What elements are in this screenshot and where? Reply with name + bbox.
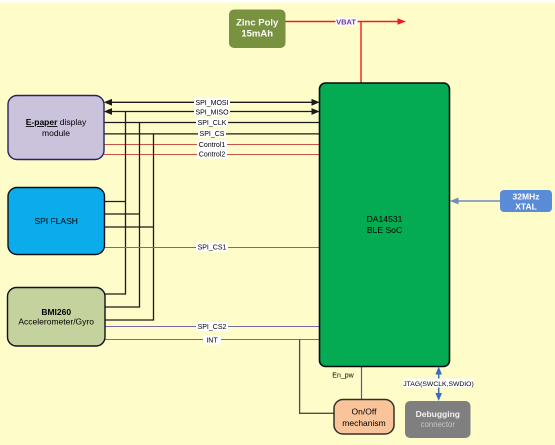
label SPI_CS1 xyxy=(196,243,228,252)
svg-text:Control1: Control1 xyxy=(199,142,226,149)
label SPI_MISO xyxy=(194,107,230,116)
wire SPI_CS xyxy=(104,133,320,135)
svg-text:32MHz: 32MHz xyxy=(513,192,540,202)
svg-text:Debugging: Debugging xyxy=(416,409,460,419)
label En_pw xyxy=(332,373,354,380)
svg-text:module: module xyxy=(42,128,70,138)
svg-text:VBAT: VBAT xyxy=(336,17,356,26)
svg-text:DA14531: DA14531 xyxy=(367,214,403,224)
wire SPI_CS1 (purple) xyxy=(105,247,320,249)
wire VBAT (red, arrow to the right) xyxy=(286,18,407,83)
svg-text:En_pw: En_pw xyxy=(332,373,354,380)
wire SPI_CLK xyxy=(104,122,320,124)
block BMI260 Accelerometer/Gyro xyxy=(8,288,106,347)
svg-text:SPI_MISO: SPI_MISO xyxy=(195,109,229,116)
svg-text:connector: connector xyxy=(421,420,456,429)
block battery Zinc Poly 15mAh xyxy=(229,10,286,49)
wire SPI bus drop 1 (MISO column to SPI FLASH and BMI260) xyxy=(105,112,126,295)
wire JTAG double-headed arrow (blue vertical) xyxy=(435,367,442,402)
svg-text:SPI_CS: SPI_CS xyxy=(200,131,225,138)
wire SPI_MOSI (double-headed arrow E-paper to SoC) xyxy=(104,99,320,106)
label VBAT xyxy=(336,17,358,26)
svg-text:mechanism: mechanism xyxy=(342,418,385,428)
svg-text:SPI_CS2: SPI_CS2 xyxy=(198,324,227,331)
svg-text:SPI_MOSI: SPI_MOSI xyxy=(195,100,228,107)
wire SPI bus drop 2 (CLK column to SPI FLASH and BMI260) xyxy=(105,123,140,308)
svg-text:INT: INT xyxy=(206,338,218,345)
svg-text:On/Off: On/Off xyxy=(352,407,378,417)
wire On/Off branch (from INT junction down to On/Off mechanism) xyxy=(300,340,334,414)
label SPI_CS xyxy=(198,129,226,138)
block Debugging connector xyxy=(405,401,471,438)
wire SPI bus drop 3 (CS column to SPI FLASH and BMI260) xyxy=(105,134,154,320)
svg-text:SPI FLASH: SPI FLASH xyxy=(34,216,77,226)
wire En_pw (SoC bottom to On/Off mechanism) xyxy=(361,367,363,400)
block SPI FLASH xyxy=(8,188,105,255)
svg-text:BLE SoC: BLE SoC xyxy=(367,225,402,235)
svg-text:15mAh: 15mAh xyxy=(241,29,273,40)
label Control1 xyxy=(197,140,227,149)
wire Control2 (red) xyxy=(104,154,320,156)
wire SPI_MISO (double-headed arrow E-paper to SoC) xyxy=(104,108,320,115)
label SPI_MOSI xyxy=(194,98,230,107)
svg-text:E-paper display: E-paper display xyxy=(26,117,87,127)
svg-text:SPI_CLK: SPI_CLK xyxy=(198,120,227,127)
block 32MHz XTAL xyxy=(500,190,552,212)
svg-text:XTAL: XTAL xyxy=(515,202,537,212)
wire Control1 (red) xyxy=(104,144,320,146)
label SPI_CS2 xyxy=(196,322,228,331)
label Control2 xyxy=(197,150,227,159)
svg-text:Control2: Control2 xyxy=(199,152,226,159)
block On/Off mechanism xyxy=(334,400,394,435)
block E-paper display module xyxy=(8,96,104,160)
wire 32MHz XTAL arrow (blue, points left into SoC) xyxy=(450,198,500,205)
label SPI_CLK xyxy=(196,118,228,127)
block DA14531 BLE SoC xyxy=(320,83,450,367)
svg-text:SPI_CS1: SPI_CS1 xyxy=(198,245,227,252)
wire INT (purple) xyxy=(105,339,320,341)
svg-text:JTAG(SWCLK,SWDIO): JTAG(SWCLK,SWDIO) xyxy=(403,381,473,388)
svg-text:Zinc Poly: Zinc Poly xyxy=(236,17,279,28)
label JTAG(SWCLK,SWDIO) xyxy=(403,379,474,388)
svg-text:Accelerometer/Gyro: Accelerometer/Gyro xyxy=(18,316,94,326)
label INT xyxy=(203,336,221,345)
top window border xyxy=(0,0,555,3)
wire SPI_CS2 (purple) xyxy=(105,326,320,328)
